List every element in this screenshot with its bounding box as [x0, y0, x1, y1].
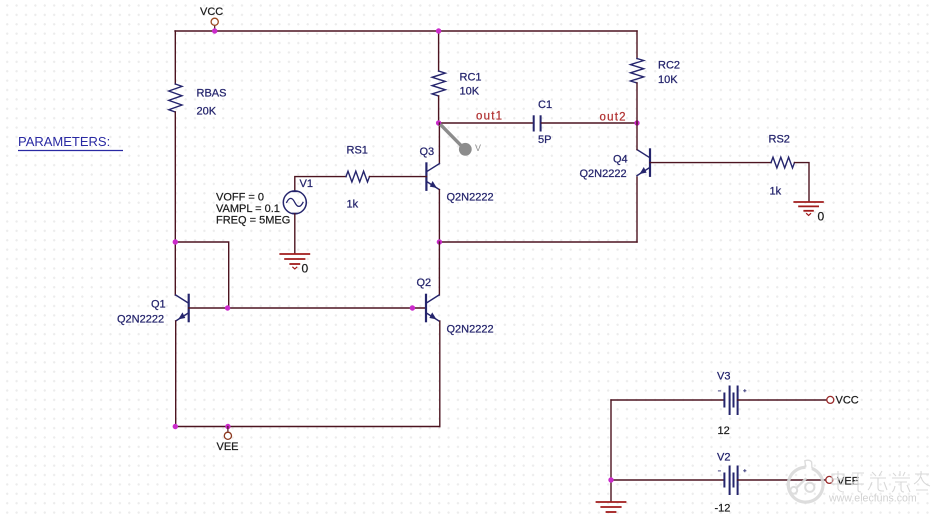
node junction dot VEE tap (228,426.5) [225, 424, 230, 429]
ground 0 (RS2) [794, 202, 823, 215]
wire battery V3 right lead to VCC [738, 399, 827, 401]
svg-text:Q1: Q1 [151, 299, 166, 311]
svg-text:VCC: VCC [200, 6, 223, 18]
wire top rail VCC [175, 30, 637, 32]
label PARAMETERS heading [18, 134, 123, 151]
svg-text:20K: 20K [197, 106, 217, 118]
node junction dot at (412.4,308) [410, 305, 415, 310]
node junction dot VCC top rail (215,31) [212, 28, 217, 33]
svg-text:V3: V3 [717, 371, 730, 383]
svg-text:Q2N2222: Q2N2222 [447, 324, 494, 336]
svg-text:VCC: VCC [836, 395, 859, 407]
svg-text:0: 0 [302, 262, 309, 276]
wire Q1 emitter to bottom rail [175, 321, 177, 427]
svg-text:-12: -12 [715, 503, 731, 515]
transistor Q1 (faces left, base bar at x=188.7 y=308) [176, 295, 189, 321]
svg-text:RS1: RS1 [347, 145, 368, 157]
svg-text:5P: 5P [538, 134, 551, 146]
wire out2 node horizontal [542, 122, 638, 124]
wire battery V2 left lead [611, 479, 723, 481]
svg-text:FREQ = 5MEG: FREQ = 5MEG [216, 215, 290, 227]
svg-text:RC1: RC1 [460, 72, 482, 84]
wire RC1 top lead [438, 31, 440, 71]
svg-text:10K: 10K [658, 74, 678, 86]
svg-text:V2: V2 [717, 452, 730, 464]
node junction dot at (175,426.5) [173, 424, 178, 429]
node junction dot at (611,480) [608, 477, 613, 482]
svg-text:Q2N2222: Q2N2222 [580, 168, 627, 180]
wire out1 node horizontal [439, 122, 533, 124]
wire left vertical upper (VCC rail to RBAS) [174, 31, 176, 84]
svg-text:V: V [475, 143, 481, 153]
wire Q4 base to RS2 [650, 162, 771, 164]
svg-text:Q2: Q2 [417, 277, 432, 289]
node VCC connector circle (top) [211, 18, 218, 25]
watermark logo circle [788, 460, 823, 502]
wire battery V3 left lead [611, 399, 723, 401]
wire emitters rail (Q3/Q4 to Q2 collector) [439, 241, 637, 243]
wire RC2 bottom lead to out2 [636, 83, 638, 123]
ground 0 (V1) [280, 254, 309, 269]
node junction dot out2 (637,123) [634, 120, 639, 125]
svg-text:0: 0 [818, 210, 825, 224]
wire battery common vertical [610, 400, 612, 502]
wire VCC stub [214, 26, 216, 31]
wire Q4 collector lead up to out2 [636, 123, 638, 150]
resistor RBAS body [169, 84, 182, 112]
svg-text:Q4: Q4 [613, 154, 628, 166]
ground 0 (battery) [597, 502, 626, 512]
svg-text:12: 12 [718, 425, 730, 437]
node VEE connector circle [224, 427, 231, 440]
wire RS1 to Q3 base [370, 176, 427, 178]
wire V1 bottom lead to ground [294, 214, 296, 254]
svg-text:VEE: VEE [837, 476, 859, 488]
resistor RS2 body [771, 157, 795, 168]
capacitor C1 plates [534, 116, 541, 130]
node junction dot at (175,242) [173, 239, 178, 244]
svg-text:1k: 1k [347, 199, 359, 211]
source V1 (VSIN) [283, 191, 306, 214]
node junction dot at (439.4,242) [437, 239, 442, 244]
resistor RC1 body [432, 71, 445, 96]
wire Q2 emitter lead to bottom rail [439, 321, 441, 427]
wire RC1 bottom lead to out1 [438, 96, 440, 123]
svg-text:1k: 1k [770, 186, 782, 198]
svg-text:RS2: RS2 [769, 134, 790, 146]
transistor Q3 (faces right, base bar at x=426.4 y=176.6) [426, 163, 439, 189]
svg-text:10K: 10K [460, 86, 480, 98]
transistor Q2 (faces right, base bar at x=426 y=308) [426, 295, 439, 321]
wire RS2 to ground [795, 163, 810, 202]
svg-text:Q2N2222: Q2N2222 [447, 192, 494, 204]
wire left vertical lower (RBAS to Q1 collector) [174, 112, 176, 295]
svg-text:V1: V1 [300, 178, 313, 190]
watermark Chinese characters [832, 471, 930, 492]
svg-text:out1: out1 [476, 111, 503, 123]
svg-text:C1: C1 [538, 99, 552, 111]
wire Q2 collector lead [438, 242, 440, 295]
wire base-collector tie of Q1 [175, 242, 228, 308]
resistor RS1 body [346, 171, 370, 182]
wire Q3 emitter lead down [438, 190, 440, 242]
svg-text:VEE: VEE [217, 441, 239, 453]
transistor Q4 (faces left, base bar at x=650 y=162.6) [637, 149, 650, 175]
wire Q1 base lead [189, 307, 426, 309]
svg-text:out2: out2 [600, 112, 627, 124]
svg-text:Q3: Q3 [420, 146, 435, 158]
node junction dot out1 (438.6,123) [436, 120, 441, 125]
svg-text:www.elecfuns.com: www.elecfuns.com [828, 493, 917, 505]
battery V2 [718, 467, 746, 495]
wire bottom rail VEE [175, 426, 440, 428]
node VCC connector circle (right) [827, 396, 834, 403]
svg-text:VAMPL = 0.1: VAMPL = 0.1 [216, 203, 280, 215]
node junction dot at (438.6,31) [436, 28, 441, 33]
node VEE connector circle (right) [826, 476, 833, 483]
wire V1 top lead and to RS1 [295, 177, 346, 191]
node junction dot at (227.6,308) [225, 305, 230, 310]
svg-text:RC2: RC2 [658, 60, 680, 72]
wire Q4 emitter lead down to rail [636, 177, 638, 242]
probe V marker at out1 [442, 126, 472, 156]
wire battery V2 right lead to VEE [738, 479, 826, 481]
svg-text:PARAMETERS:: PARAMETERS: [18, 134, 110, 149]
svg-text:Q2N2222: Q2N2222 [117, 314, 164, 326]
resistor RC2 body [631, 59, 644, 84]
battery V3 [718, 387, 746, 415]
wire RC2 top lead [636, 31, 638, 59]
svg-text:RBAS: RBAS [197, 88, 227, 100]
wire Q3 collector lead [438, 123, 440, 164]
svg-text:VOFF = 0: VOFF = 0 [216, 192, 264, 204]
